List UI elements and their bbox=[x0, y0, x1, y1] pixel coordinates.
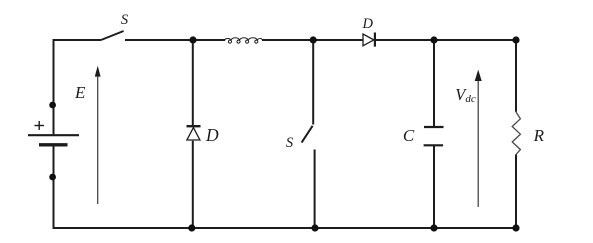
svg-text:C: C bbox=[403, 126, 415, 145]
svg-text:D: D bbox=[205, 125, 219, 145]
svg-text:R: R bbox=[533, 126, 545, 145]
svg-text:S: S bbox=[121, 12, 129, 28]
svg-text:D: D bbox=[362, 16, 374, 32]
svg-text:E: E bbox=[74, 83, 86, 102]
svg-text:S: S bbox=[286, 135, 294, 151]
